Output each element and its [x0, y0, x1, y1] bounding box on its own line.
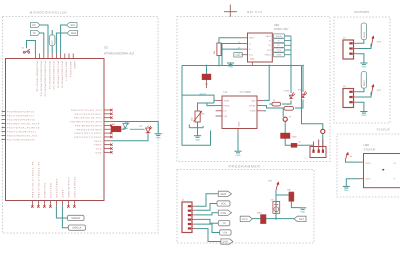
wire R9 to gnd — [291, 201, 299, 207]
connector J2 pins — [354, 43, 358, 53]
wire PB3 net — [111, 134, 148, 141]
label U5 name — [274, 23, 280, 27]
U2 right pin no-connect marks — [110, 109, 112, 154]
resistor R7 — [272, 99, 281, 106]
U1 pin names — [224, 99, 257, 126]
wire J3 pin3 — [357, 102, 364, 111]
svg-text:ADC7/PCINT7: ADC7/PCINT7 — [65, 62, 68, 82]
ground flag stepup — [343, 186, 350, 192]
svg-text:USBC-16P: USBC-16P — [274, 27, 289, 31]
svg-text:ADC6/AIN1: ADC6/AIN1 — [69, 62, 72, 78]
svg-text:PB6/XTAL1/TOSC1: PB6/XTAL1/TOSC1 — [75, 132, 103, 135]
capacitor C10 — [257, 211, 267, 223]
svg-text:PC4/ADC4/SDA/PCINT12: PC4/ADC4/SDA/PCINT12 — [44, 62, 47, 98]
wire U1 loop outer — [182, 95, 216, 145]
label U8 name — [364, 143, 370, 147]
supply arrow 3V3 — [268, 180, 279, 191]
wire DTR line — [252, 218, 294, 220]
svg-text:GND: GND — [195, 138, 200, 141]
wire rail to D4 — [206, 66, 208, 75]
ground flag R9 — [299, 208, 306, 214]
svg-text:PB7/XTAL2/TOSC2_P7: PB7/XTAL2/TOSC2_P7 — [37, 161, 40, 198]
svg-text:SWCLK: SWCLK — [72, 227, 81, 230]
svg-text:22R: 22R — [112, 123, 116, 126]
wire RX to pin — [40, 25, 48, 54]
LED D5 CHRG — [284, 90, 296, 99]
svg-text:VCC: VCC — [96, 148, 102, 151]
ground flag U5 — [227, 63, 234, 69]
svg-text:PD2/INT0/PCINT18: PD2/INT0/PCINT18 — [7, 119, 35, 122]
U5 pins — [242, 38, 253, 66]
svg-text:PRG: PRG — [236, 54, 241, 57]
wire J1 TX — [196, 219, 218, 223]
wire led1 join — [124, 122, 126, 124]
U5 right net labels — [273, 34, 284, 57]
net flag SWCLK — [68, 225, 85, 230]
LED D6 FULL — [298, 89, 307, 98]
wire power rail — [182, 65, 304, 67]
wire U5 pin2 to rail — [222, 44, 242, 66]
svg-text:PB0/ICP1/CLKO_PC0: PB0/ICP1/CLKO_PC0 — [71, 109, 102, 112]
label U2 value — [104, 52, 135, 56]
vertical net label RESET — [49, 30, 55, 54]
svg-text:PB7/XTAL2/TOSC2: PB7/XTAL2/TOSC2 — [75, 136, 103, 139]
IC U1 body — [222, 96, 257, 129]
U2 bottom pin names — [31, 161, 76, 198]
wire SCL to pin — [61, 25, 67, 54]
svg-text:PD7/AIN1/PCINT23: PD7/AIN1/PCINT23 — [7, 139, 35, 142]
wire led FULL drop — [302, 66, 304, 93]
svg-text:PC3/ADC3/PCINT11: PC3/ADC3/PCINT11 — [48, 62, 51, 90]
net flag SCL — [67, 23, 78, 28]
svg-text:PC6/RESET/PCINT14: PC6/RESET/PCINT14 — [35, 62, 38, 93]
trimmer R6 — [191, 111, 206, 122]
resistor R3 — [111, 123, 121, 132]
net flag GND prog — [218, 191, 231, 196]
svg-text:SWDIO/PA13: SWDIO/PA13 — [67, 177, 70, 198]
resistor R5 5k1 — [213, 43, 221, 56]
wire J1 RX — [196, 224, 220, 232]
frame PROGRAMMER box — [177, 170, 314, 244]
label PROGRAMMER — [229, 165, 261, 169]
svg-text:GND: GND — [361, 66, 366, 69]
net flag TX — [31, 31, 41, 36]
wire U5 gnd pin — [230, 63, 232, 66]
svg-text:VCC: VCC — [221, 202, 227, 205]
label STEPUP — [377, 128, 391, 132]
diode D7 — [281, 133, 298, 139]
wire leds to resistors — [282, 100, 303, 109]
frame MICROCONTROLLER box — [3, 17, 159, 234]
connector J1 pins — [192, 206, 196, 228]
connector J1 body — [182, 198, 192, 232]
wire R5 bottom to rail — [218, 56, 220, 66]
svg-text:SCL: SCL — [70, 24, 76, 27]
wire PB1 net — [111, 122, 159, 134]
net flag OTG prog — [218, 210, 231, 215]
label U1 value — [240, 90, 252, 94]
svg-text:RST: RST — [51, 39, 54, 44]
wire J2 pin2 — [357, 44, 371, 49]
wire J3 pin2 — [357, 92, 371, 97]
svg-text:PD6/AIN0/OC0A_P22: PD6/AIN0/OC0A_P22 — [7, 135, 38, 138]
svg-text:100n: 100n — [257, 211, 263, 214]
label U5 value — [274, 27, 289, 31]
svg-text:PD0/RXD/PCINT16: PD0/RXD/PCINT16 — [7, 111, 35, 114]
wire D7 to fuse — [285, 139, 313, 146]
wire U1 right pin2 — [263, 106, 284, 108]
net flag SDA — [67, 31, 78, 36]
wire J1 OTG — [196, 213, 218, 215]
net flag DTR prog — [221, 239, 233, 244]
svg-text:PB6/XTAL1/TOSC1_P6: PB6/XTAL1/TOSC1_P6 — [31, 161, 34, 198]
wire rail drop to U1 loop — [181, 66, 183, 96]
supply symbol BAT+ — [224, 5, 237, 17]
svg-text:STDBY: STDBY — [249, 105, 256, 108]
frame SENSORS box — [334, 17, 390, 123]
U2 top pin names — [35, 62, 76, 98]
IC U2 body — [6, 59, 105, 201]
U5 right wires — [272, 36, 291, 66]
U2 left pins — [2, 112, 6, 140]
svg-text:PC5/ADC5/SCL/PCINT13: PC5/ADC5/SCL/PCINT13 — [40, 62, 43, 97]
svg-text:1k: 1k — [273, 99, 275, 102]
ground flag J3 — [360, 112, 367, 118]
wire TP2 to connector — [322, 134, 324, 148]
wire rail to battery — [302, 66, 323, 130]
reset button S1 — [22, 47, 30, 54]
svg-text:PB3/MOSI/OC2A_PC3: PB3/MOSI/OC2A_PC3 — [70, 121, 102, 124]
svg-text:AVCC/VDDA: AVCC/VDDA — [55, 178, 58, 197]
svg-text:V-: V- — [394, 178, 396, 181]
diode D4 — [202, 74, 211, 85]
label U2 name — [104, 46, 108, 50]
U2 bottom pins — [32, 201, 74, 206]
battery connector BT1 pins — [314, 140, 323, 151]
net flag RX — [31, 23, 41, 28]
wire U1 right pin1 — [263, 65, 272, 104]
junction dot DTR — [275, 218, 277, 220]
net label PROG — [234, 53, 243, 57]
svg-text:U$5: U$5 — [274, 23, 280, 27]
svg-text:CHRG: CHRG — [250, 110, 256, 113]
net flag RST — [294, 216, 306, 221]
supply arrow 5V stepup — [346, 152, 353, 159]
wire 3V3 branch — [276, 194, 291, 196]
svg-text:VBUS: VBUS — [276, 35, 282, 38]
svg-text:CC2: CC2 — [277, 49, 282, 52]
wire led CHRG drop — [290, 66, 292, 94]
wire U5 pin3 to rail — [222, 48, 242, 50]
svg-text:MICROCONTROLLER: MICROCONTROLLER — [30, 11, 68, 15]
U5 pin names — [249, 35, 272, 61]
svg-text:TX: TX — [222, 222, 226, 225]
net flag VCC prog — [217, 201, 230, 206]
wire R5 top to U5 — [219, 38, 242, 43]
vertical net label J3 — [361, 72, 366, 89]
supply arrow J3 — [371, 84, 381, 97]
wire J1 VCC — [196, 204, 217, 211]
svg-text:PC2/ADC2/PCINT10: PC2/ADC2/PCINT10 — [52, 62, 55, 91]
svg-text:GND: GND — [156, 136, 161, 139]
U2 bottom pin no-connect marks — [31, 205, 75, 207]
wire U1 gnd down — [237, 133, 239, 151]
ground flag R6 — [194, 136, 201, 142]
svg-text:STEPUP: STEPUP — [364, 147, 376, 151]
svg-text:D-: D- — [269, 40, 271, 43]
svg-text:GND: GND — [361, 114, 366, 117]
svg-text:SENS: SENS — [363, 31, 366, 37]
svg-text:DTR: DTR — [223, 241, 228, 244]
connector J3 body — [343, 85, 354, 108]
svg-text:CHRG: CHRG — [284, 90, 290, 93]
svg-text:OTG: OTG — [220, 212, 226, 215]
wire U1 pin2 stub — [204, 103, 216, 106]
test point TP1 — [283, 116, 292, 122]
svg-text:VBUS: VBUS — [266, 35, 272, 38]
svg-text:SWDIO: SWDIO — [71, 217, 80, 220]
svg-text:RX: RX — [32, 24, 36, 27]
resistor R9 — [287, 189, 294, 202]
svg-text:PD1/TXD/PCINT17: PD1/TXD/PCINT17 — [7, 115, 34, 118]
wire SWCLK — [62, 206, 68, 228]
frame BATTERY box — [177, 17, 330, 162]
U2 top pins — [35, 54, 73, 59]
svg-text:OUT-: OUT- — [366, 178, 371, 181]
svg-text:PC1/ADC1/PCINT9: PC1/ADC1/PCINT9 — [56, 62, 59, 89]
fuse F1 — [291, 141, 301, 148]
LED D3 red — [140, 125, 153, 133]
wire SWDIO — [56, 206, 67, 218]
svg-text:PB4/MISO/PCINT4: PB4/MISO/PCINT4 — [75, 124, 102, 127]
svg-text:D-: D- — [278, 40, 281, 43]
net flag SWDIO — [68, 215, 85, 220]
wire R6 bottom — [189, 122, 203, 136]
ground flag MCU leds — [155, 134, 162, 140]
svg-text:GND: GND — [228, 66, 233, 69]
svg-text:PD3/INT1/OC2B_PC19: PD3/INT1/OC2B_PC19 — [7, 123, 40, 126]
resistor R8 — [284, 103, 294, 110]
svg-text:GND: GND — [276, 54, 281, 57]
label U1 name — [224, 90, 228, 94]
supply arrow J2 — [371, 36, 381, 49]
svg-text:SDA: SDA — [71, 32, 77, 35]
svg-text:PB2/SS/OC1B_PC2: PB2/SS/OC1B_PC2 — [74, 117, 102, 120]
wire R8 left drop — [282, 108, 285, 117]
wire 3V3 down — [275, 190, 277, 219]
svg-text:D-: D- — [249, 42, 251, 45]
U2 right pin names — [70, 109, 102, 154]
svg-text:SWCLK/PA14: SWCLK/PA14 — [73, 176, 76, 197]
net flag RX prog — [220, 230, 232, 235]
svg-text:GND: GND — [236, 154, 241, 157]
U2 right pins — [104, 110, 111, 152]
svg-text:VBUS: VBUS — [249, 37, 255, 40]
wire U1 right pin3 stub — [263, 110, 266, 112]
wire J2 pin1 — [357, 40, 364, 44]
test point TP2 — [321, 129, 325, 133]
frame STEPUP box — [337, 134, 400, 197]
svg-text:PROG: PROG — [224, 105, 230, 108]
svg-text:BAT 3.7V: BAT 3.7V — [247, 10, 262, 14]
wire J2 pin3 — [357, 54, 364, 63]
svg-text:GND: GND — [238, 121, 241, 126]
wire led2 top — [130, 126, 148, 129]
svg-text:ATMEGA328PA-AU: ATMEGA328PA-AU — [104, 52, 135, 56]
ground flag J2 — [360, 63, 367, 69]
svg-text:VIN: VIN — [224, 115, 228, 118]
U8 pins — [360, 162, 364, 179]
net flag TX prog — [218, 221, 230, 226]
svg-text:SHELL: SHELL — [265, 54, 272, 57]
svg-text:U2: U2 — [104, 46, 108, 50]
svg-text:DTR: DTR — [242, 218, 247, 221]
wire R6 top — [198, 103, 215, 111]
svg-text:AVCC: AVCC — [94, 140, 102, 143]
wire 5V to U8 — [346, 159, 360, 162]
svg-text:RX: RX — [224, 231, 228, 234]
battery connector BT1 body — [305, 147, 327, 160]
svg-text:PB5/SCK/PCINT5: PB5/SCK/PCINT5 — [77, 128, 103, 131]
U5 left net labels — [238, 41, 242, 55]
LED D2 green — [121, 121, 129, 129]
IC U5 charger body — [248, 33, 273, 62]
wire SDA to pin — [56, 33, 67, 54]
svg-text:XY-4056: XY-4056 — [240, 90, 252, 94]
svg-text:PROGRAMMER: PROGRAMMER — [229, 165, 261, 169]
U1 pins — [216, 100, 264, 133]
wire TP1 down — [284, 121, 286, 133]
svg-text:PB1/OC1A/PCINT1: PB1/OC1A/PCINT1 — [75, 113, 103, 116]
svg-text:TEMP: TEMP — [224, 99, 230, 102]
label BATTERY — [247, 10, 262, 14]
net flag DTR2 — [240, 216, 252, 221]
U2 left pin names — [7, 111, 40, 142]
capacitor C9 polar — [271, 198, 280, 213]
svg-text:PC0/ADC0/PCINT8: PC0/ADC0/PCINT8 — [61, 62, 64, 89]
svg-text:GND: GND — [300, 210, 305, 213]
svg-text:VCC/VDD: VCC/VDD — [49, 182, 52, 197]
connector J3 pins — [354, 92, 358, 102]
vertical net label J2 — [361, 23, 366, 40]
svg-text:GND: GND — [250, 58, 255, 61]
connector J2 body — [343, 36, 354, 59]
svg-text:GND/VSS: GND/VSS — [43, 182, 46, 197]
svg-text:GND: GND — [220, 193, 226, 196]
svg-text:U1: U1 — [224, 90, 228, 94]
svg-text:RST: RST — [299, 218, 305, 221]
svg-text:AREF: AREF — [61, 189, 64, 198]
wire J1 DTR — [196, 229, 221, 242]
wire J1 GND — [196, 194, 218, 207]
svg-text:GND: GND — [95, 151, 102, 154]
wire TX to pin — [40, 33, 44, 54]
ground flag U1 — [234, 151, 241, 157]
wire button to pin — [27, 41, 36, 54]
label SENSORS — [354, 10, 369, 14]
label MICROCONTROLLER — [30, 11, 68, 15]
IC U8 body — [364, 154, 400, 188]
net label +BATT — [199, 93, 207, 96]
svg-text:SENS: SENS — [363, 80, 366, 86]
svg-text:TX: TX — [32, 32, 36, 35]
label U8 value — [364, 147, 376, 151]
svg-text:AREF: AREF — [73, 62, 76, 70]
svg-text:GND: GND — [344, 189, 349, 192]
svg-text:PD5/T1/OC0B_PC21: PD5/T1/OC0B_PC21 — [7, 131, 37, 134]
wire U8 gnd — [346, 179, 359, 186]
svg-text:AREF: AREF — [94, 144, 102, 147]
pin D4 bottom — [206, 80, 208, 88]
wire J3 pin1 — [357, 88, 364, 92]
svg-text:SENSORS: SENSORS — [354, 10, 369, 14]
svg-text:OUT+: OUT+ — [366, 162, 373, 165]
svg-text:PD4/T0/XCK_PCINT20: PD4/T0/XCK_PCINT20 — [7, 127, 40, 130]
svg-text:STEPUP: STEPUP — [377, 128, 391, 132]
wire PB2 to R3 — [110, 128, 112, 130]
